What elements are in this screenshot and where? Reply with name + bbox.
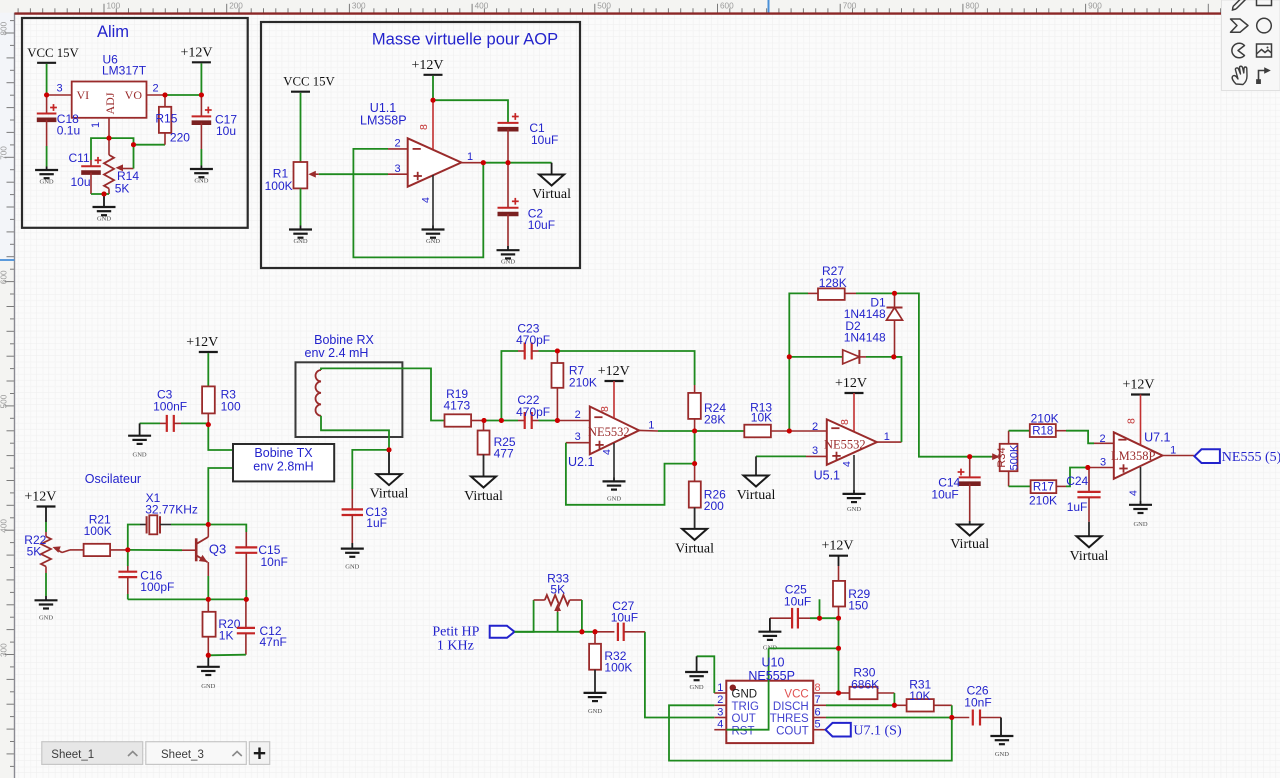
- regulator U6 LM317T body: [72, 82, 147, 118]
- svg-text:+12V: +12V: [24, 490, 56, 505]
- svg-text:1: 1: [1170, 445, 1176, 457]
- wire output feedback up: [894, 357, 902, 442]
- svg-text:GND: GND: [97, 216, 111, 223]
- svg-text:128K: 128K: [819, 276, 847, 290]
- svg-text:Alim: Alim: [97, 23, 129, 41]
- svg-text:4173: 4173: [444, 399, 471, 413]
- wire output to Virtual: [482, 162, 552, 164]
- wire DISCH: [826, 704, 894, 706]
- pin 8 of U7.1: [1140, 395, 1142, 445]
- svg-text:Masse virtuelle pour AOP: Masse virtuelle pour AOP: [372, 31, 558, 49]
- junction VCC/R30: [836, 691, 841, 696]
- wire C3 left to gnd: [140, 422, 160, 424]
- svg-text:1: 1: [717, 682, 723, 694]
- junction: [206, 422, 211, 427]
- net flag Virtual (R25): [464, 477, 503, 505]
- svg-text:Bobine TX: Bobine TX: [254, 446, 313, 460]
- svg-text:U5.1: U5.1: [814, 469, 840, 483]
- wire port to R33: [515, 600, 534, 632]
- wire R21 node up to X1: [128, 525, 140, 550]
- junction C23/R7/feedback: [555, 349, 560, 354]
- pin 7 of U10: [813, 704, 826, 706]
- wire C12 to R20 node: [208, 654, 246, 657]
- resistor R25: [478, 421, 490, 455]
- wire pin3 to Virtual: [756, 455, 806, 457]
- svg-text:10uF: 10uF: [931, 488, 958, 502]
- capacitor C25: [770, 608, 810, 629]
- wire feedback loop U1.1: [353, 149, 483, 258]
- svg-text:400: 400: [475, 2, 489, 11]
- crystal X1 32.77KHz: [140, 515, 171, 534]
- junction output/R24/R13: [692, 429, 697, 434]
- wire R34 bottom to R17: [1009, 471, 1031, 486]
- power flag +12V (Masse): [411, 58, 443, 75]
- Masse virtuelle frame: [261, 22, 580, 268]
- svg-text:100: 100: [221, 400, 241, 414]
- net flag Virtual (C14): [950, 525, 989, 553]
- svg-text:Sheet_3: Sheet_3: [161, 749, 204, 761]
- svg-text:900: 900: [1088, 2, 1102, 11]
- wire D2 row left: [789, 356, 842, 358]
- resistor R7: [552, 351, 564, 421]
- svg-text:2: 2: [717, 694, 723, 706]
- svg-text:4: 4: [601, 449, 613, 455]
- pin 4 of U5.1: [853, 455, 855, 490]
- svg-text:100K: 100K: [265, 179, 293, 193]
- svg-text:500: 500: [597, 2, 611, 11]
- svg-text:GND: GND: [501, 259, 515, 266]
- wire C13 to gnd: [351, 543, 353, 549]
- wire R1 wiper to pin3: [319, 173, 388, 175]
- wire output to R13: [695, 430, 745, 432]
- capacitor C24: [1077, 468, 1100, 522]
- svg-text:GND: GND: [607, 495, 621, 502]
- svg-text:OUT: OUT: [732, 713, 756, 725]
- op-amp U5.1 NE5532: [824, 419, 877, 464]
- wire wiper vertical: [133, 145, 135, 169]
- svg-text:28K: 28K: [704, 413, 725, 427]
- svg-text:6: 6: [815, 706, 821, 718]
- pin 2 of U2.1: [557, 420, 589, 422]
- svg-text:U2.1: U2.1: [568, 455, 594, 469]
- svg-text:100: 100: [107, 2, 121, 11]
- capacitor C17: [192, 95, 212, 149]
- svg-text:Bobine RX: Bobine RX: [314, 333, 374, 347]
- junction: [244, 597, 249, 602]
- pin 3 of U5.1: [806, 455, 827, 457]
- wire VCC to R1: [300, 93, 302, 162]
- svg-text:500K: 500K: [1009, 444, 1021, 470]
- svg-text:600: 600: [0, 270, 9, 284]
- wire R31 to THRES node: [951, 705, 953, 717]
- ground (R32): [584, 693, 607, 715]
- junction R32/row: [593, 629, 598, 634]
- svg-text:3: 3: [717, 706, 723, 718]
- junction: [107, 136, 112, 141]
- junction: [892, 291, 897, 296]
- svg-text:C11: C11: [69, 151, 90, 165]
- potentiometer R1 100K: [294, 162, 319, 188]
- svg-text:GND: GND: [194, 178, 208, 185]
- svg-text:10uF: 10uF: [528, 218, 555, 232]
- pin 1 of U7.1 (output): [1162, 455, 1194, 457]
- svg-text:1N4148: 1N4148: [844, 331, 886, 345]
- svg-text:10u: 10u: [71, 175, 91, 189]
- pin 2 of U10: [714, 704, 726, 706]
- wire output node down: [694, 431, 696, 464]
- wire R27 right: [856, 292, 895, 294]
- svg-text:400: 400: [0, 519, 9, 533]
- resistor R19: [445, 414, 485, 426]
- svg-text:1: 1: [90, 122, 102, 128]
- pin 4 of U10: [714, 729, 726, 731]
- capacitor C15: [235, 532, 257, 590]
- svg-text:LM358P: LM358P: [360, 114, 407, 128]
- resistor R33 (variable 5K): [534, 595, 582, 612]
- resistor R3: [202, 386, 215, 424]
- svg-text:8: 8: [418, 124, 430, 130]
- capacitor C18: [37, 95, 57, 146]
- pin 1 of U10: [714, 692, 726, 694]
- junction: [206, 522, 211, 527]
- svg-text:Virtual: Virtual: [950, 537, 989, 552]
- svg-text:210K: 210K: [569, 376, 597, 390]
- potentiometer R34 500K: [992, 444, 1021, 471]
- junction R29/C25: [836, 616, 841, 621]
- svg-text:470pF: 470pF: [516, 405, 550, 419]
- wire R32 to gnd: [594, 670, 596, 693]
- svg-text:U10: U10: [762, 656, 785, 670]
- resistor R15: [159, 95, 171, 145]
- svg-text:7: 7: [815, 694, 821, 706]
- svg-text:GND: GND: [847, 506, 861, 513]
- svg-text:+12V: +12V: [411, 58, 443, 73]
- svg-text:5K: 5K: [115, 182, 130, 196]
- junction: [836, 691, 841, 696]
- capacitor C27: [595, 623, 645, 641]
- wire +12V stem: [200, 63, 202, 95]
- junction: [787, 429, 792, 434]
- net flag Virtual (U1.1 out): [551, 163, 553, 175]
- pin 1 of U5.1 (output): [877, 441, 902, 443]
- wire C2 to gnd: [507, 246, 509, 250]
- junction: [125, 547, 130, 552]
- wire C16 to rail: [127, 594, 129, 599]
- svg-text:R34: R34: [996, 447, 1008, 467]
- svg-text:470pF: 470pF: [516, 333, 550, 347]
- junction VO/R15: [163, 93, 168, 98]
- svg-text:100K: 100K: [84, 524, 112, 538]
- svg-text:100pF: 100pF: [140, 580, 174, 594]
- svg-text:NE5532: NE5532: [588, 425, 630, 439]
- wire X1 to collector node: [171, 524, 208, 526]
- svg-text:0.1u: 0.1u: [57, 124, 80, 138]
- svg-text:GND: GND: [426, 238, 440, 245]
- resistor R30: [839, 687, 895, 699]
- svg-text:300: 300: [352, 2, 366, 11]
- svg-text:U7.1: U7.1: [1144, 431, 1170, 445]
- wire OUT to C27: [645, 632, 714, 718]
- pin 3 of U6: [47, 94, 72, 96]
- svg-text:GND: GND: [345, 564, 359, 571]
- wire R33 wiper down: [557, 612, 559, 632]
- junction: [836, 646, 841, 651]
- junction R3/C3: [206, 422, 211, 427]
- svg-text:NE555 (5): NE555 (5): [1222, 450, 1280, 465]
- wire C17 to gnd: [200, 149, 202, 166]
- svg-text:LM317T: LM317T: [102, 64, 147, 78]
- svg-text:Q3: Q3: [209, 542, 226, 557]
- pin 8 of U1.1: [432, 100, 434, 149]
- junction R26/feedback: [692, 461, 697, 466]
- pin 1 (ADJ) of U6: [108, 118, 110, 138]
- wire U2.1 output: [658, 430, 695, 432]
- capacitor C2: [498, 163, 519, 246]
- junction +12V/C17: [199, 93, 204, 98]
- pin 3 of U2.1: [566, 442, 590, 444]
- svg-text:Petit HP: Petit HP: [432, 625, 479, 640]
- svg-text:5K: 5K: [27, 545, 42, 559]
- IC U10 NE555P body: [726, 681, 813, 743]
- wire ADJ node to R15 bottom node: [109, 138, 134, 145]
- svg-text:GND: GND: [995, 751, 1009, 758]
- svg-text:R17: R17: [1033, 482, 1054, 494]
- svg-text:Virtual: Virtual: [675, 541, 714, 556]
- diode D1 1N4148: [887, 293, 903, 357]
- junction: [892, 703, 897, 708]
- svg-text:+12V: +12V: [821, 539, 853, 554]
- svg-text:ADJ: ADJ: [103, 92, 117, 114]
- wire R14 bottom rail: [91, 193, 109, 195]
- capacitor C14: [958, 457, 981, 521]
- svg-text:600: 600: [720, 2, 734, 11]
- svg-text:3: 3: [812, 445, 818, 457]
- wire C15 bottom to rail: [245, 590, 247, 599]
- svg-text:Virtual: Virtual: [370, 487, 409, 502]
- junction: [431, 98, 436, 103]
- net port Petit HP: [432, 625, 514, 654]
- net flag Virtual (RX): [388, 450, 390, 474]
- resistor R32: [589, 632, 601, 670]
- svg-text:Virtual: Virtual: [532, 187, 571, 202]
- emitter rail: [128, 598, 247, 600]
- svg-text:Oscilateur: Oscilateur: [85, 472, 141, 486]
- svg-text:GND: GND: [39, 614, 53, 621]
- svg-text:LM358P: LM358P: [1111, 449, 1156, 463]
- wire R19 node to C22: [484, 420, 518, 422]
- junction: [163, 93, 168, 98]
- net port U7.1 (S): [826, 723, 902, 739]
- pin 1 of U2.1 (output): [639, 429, 658, 432]
- svg-text:8: 8: [599, 406, 611, 412]
- capacitor C23: [518, 343, 539, 360]
- toolbar panel: [1222, 0, 1280, 91]
- svg-text:3: 3: [57, 83, 63, 95]
- op-amp U2.1 NE5532: [588, 407, 639, 455]
- svg-text:+12V: +12V: [1122, 378, 1154, 393]
- junction: [891, 354, 896, 359]
- junction: [817, 616, 822, 621]
- svg-text:4: 4: [420, 197, 432, 203]
- pin 2 of U6: [147, 94, 166, 96]
- svg-text:GND: GND: [1133, 521, 1147, 528]
- wire C14 node to R34 wiper: [970, 456, 992, 458]
- junction THRES/C26: [949, 715, 954, 720]
- svg-text:220: 220: [170, 131, 190, 145]
- pin 8 of U10: [813, 692, 838, 694]
- svg-text:1: 1: [467, 151, 473, 163]
- wire R29 node down to VCC: [838, 618, 840, 693]
- pin 2 of U7.1: [1094, 442, 1114, 444]
- junction: [499, 418, 504, 423]
- junction D2/D1/output: [891, 354, 896, 359]
- pin 8 of U2.1: [613, 381, 615, 418]
- svg-text:+12V: +12V: [180, 45, 212, 60]
- svg-text:GND: GND: [40, 179, 54, 186]
- capacitor C11: [81, 157, 101, 194]
- inductor coil (RX): [316, 370, 321, 416]
- pin 4 of U1.1: [432, 175, 434, 226]
- wire +12V to R3: [207, 353, 209, 386]
- junction: [555, 418, 560, 423]
- wire R34 top to R18: [1009, 431, 1030, 444]
- svg-text:3: 3: [1100, 457, 1106, 469]
- capacitor C16: [118, 566, 137, 594]
- junction: [787, 354, 792, 359]
- junction: [967, 454, 972, 459]
- svg-text:Virtual: Virtual: [464, 489, 503, 504]
- ground (under R1): [289, 230, 312, 246]
- ground (U10 pin1): [685, 672, 708, 691]
- svg-text:200: 200: [229, 2, 243, 11]
- junction DISCH/R31: [892, 703, 897, 708]
- svg-text:1: 1: [884, 431, 890, 443]
- svg-text:10uF: 10uF: [531, 133, 558, 147]
- svg-text:10uF: 10uF: [611, 611, 638, 625]
- pin 3 of U10: [714, 717, 726, 719]
- resistor R14 (variable 5K): [104, 138, 134, 194]
- ground (C13): [341, 549, 364, 571]
- capacitor C22: [518, 412, 539, 429]
- junction: [131, 142, 136, 147]
- sheet tab Sheet_3: [146, 742, 247, 765]
- Bobine RX frame: [296, 362, 403, 437]
- ground (C25): [769, 618, 771, 632]
- wire RX coil top to R19: [321, 368, 445, 420]
- net flag Virtual (R26): [675, 529, 714, 557]
- svg-text:1uF: 1uF: [366, 516, 387, 530]
- svg-text:8: 8: [839, 419, 851, 425]
- svg-text:VI: VI: [77, 88, 90, 102]
- svg-text:U7.1 (S): U7.1 (S): [853, 724, 902, 739]
- op-amp U7.1 LM358P: [1111, 432, 1162, 479]
- svg-text:700: 700: [0, 146, 9, 160]
- ground (under C17): [190, 169, 213, 185]
- wire VCC15V to node: [46, 64, 48, 95]
- wire RST vertical: [726, 648, 768, 729]
- junction: [482, 418, 487, 423]
- svg-text:10nF: 10nF: [261, 555, 288, 569]
- junction bottom node (R14/C11): [102, 192, 107, 197]
- wire R26 to Virtual: [694, 508, 696, 529]
- svg-text:150: 150: [848, 599, 868, 613]
- svg-text:env 2.8mH: env 2.8mH: [253, 460, 313, 474]
- svg-text:3: 3: [395, 163, 401, 175]
- wire C24 to Virtual: [1088, 522, 1090, 537]
- capacitor C12: [237, 599, 255, 654]
- svg-text:GND: GND: [690, 684, 704, 691]
- svg-text:300: 300: [0, 643, 9, 657]
- svg-text:500: 500: [0, 394, 9, 408]
- wire R22 wiper to R21: [62, 550, 70, 553]
- power flag +12V (R29): [821, 539, 853, 556]
- ground (U7.1 pin4): [1129, 505, 1152, 528]
- scrollbar position marker (top ruler): [768, 0, 770, 13]
- wire R1 bottom to gnd: [300, 188, 302, 225]
- svg-text:2: 2: [153, 83, 159, 95]
- left ruler: [0, 13, 15, 778]
- resistor R18: [1030, 424, 1066, 437]
- svg-text:NE555P: NE555P: [748, 669, 795, 683]
- svg-text:10K: 10K: [751, 411, 772, 425]
- junction: [102, 192, 107, 197]
- wire R33 right down: [581, 600, 583, 632]
- pin 4 of U2.1: [613, 443, 615, 478]
- pin 5 of U10: [813, 729, 825, 731]
- svg-text:DISCH: DISCH: [773, 701, 809, 713]
- wire pin1 to gnd: [697, 656, 715, 693]
- ground (R22): [35, 600, 58, 621]
- svg-text:1uF: 1uF: [1067, 500, 1088, 514]
- power flag +12V (Alim): [180, 45, 212, 62]
- junction C15/rail: [244, 597, 249, 602]
- svg-text:3: 3: [575, 431, 581, 443]
- ground (R20): [197, 667, 220, 690]
- svg-text:210K: 210K: [1031, 412, 1059, 426]
- resistor R17: [1031, 480, 1066, 493]
- junction: [506, 160, 511, 165]
- wire R15 bottom to junction: [134, 144, 166, 146]
- svg-text:477: 477: [494, 447, 514, 461]
- wire +12V to R22: [45, 507, 47, 523]
- wire base node to C16: [127, 550, 129, 566]
- pin 2 of U1.1: [388, 148, 408, 150]
- capacitor C3: [160, 415, 181, 432]
- svg-text:VCC 15V: VCC 15V: [283, 75, 335, 89]
- svg-text:Sheet_1: Sheet_1: [51, 749, 94, 761]
- op-amp U1.1 LM358P: [408, 138, 462, 186]
- junction D2 row left: [787, 354, 792, 359]
- wire R18 to pin2: [1066, 431, 1094, 444]
- svg-text:VCC: VCC: [784, 689, 808, 701]
- svg-text:4: 4: [717, 719, 723, 731]
- wire U2.1 pin3 feedback loop: [566, 443, 695, 505]
- wire emitter down: [207, 576, 209, 599]
- svg-text:THRES: THRES: [770, 713, 809, 725]
- ground (U5.1 pin4): [843, 494, 866, 513]
- wire top feedback to R24: [557, 351, 694, 385]
- capacitor C26: [952, 710, 1001, 726]
- wire RX node to C13: [352, 450, 389, 489]
- svg-text:800: 800: [965, 2, 979, 11]
- wire main row: [515, 631, 596, 633]
- svg-text:VO: VO: [125, 88, 143, 102]
- resistor R26: [689, 464, 701, 508]
- junction RX/C13/Virtual: [387, 447, 392, 452]
- wire C18 to gnd: [46, 146, 48, 167]
- resistor R27: [808, 288, 856, 300]
- svg-text:+12V: +12V: [835, 376, 867, 391]
